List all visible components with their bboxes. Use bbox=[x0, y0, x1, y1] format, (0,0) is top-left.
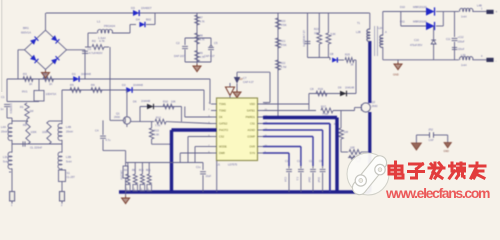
svg-text:RC1: RC1 bbox=[139, 170, 144, 172]
svg-text:20mH: 20mH bbox=[66, 130, 73, 134]
svg-text:R22: R22 bbox=[281, 61, 286, 65]
svg-text:C8: C8 bbox=[310, 87, 314, 91]
svg-text:22nF: 22nF bbox=[308, 177, 311, 183]
svg-text:CS1: CS1 bbox=[250, 122, 256, 126]
svg-text:CAP 4.07: CAP 4.07 bbox=[204, 55, 215, 58]
svg-text:R2: R2 bbox=[92, 39, 96, 43]
svg-text:R1: R1 bbox=[20, 105, 24, 109]
svg-text:C16: C16 bbox=[297, 160, 302, 163]
svg-text:R13: R13 bbox=[154, 129, 159, 133]
svg-text:4.7u: 4.7u bbox=[106, 139, 111, 142]
svg-text:1N4148: 1N4148 bbox=[345, 86, 355, 90]
svg-text:DAP 100T: DAP 100T bbox=[174, 55, 186, 58]
svg-text:100K: 100K bbox=[42, 131, 48, 134]
svg-text:100K: 100K bbox=[31, 130, 37, 134]
svg-text:MBR20100: MBR20100 bbox=[413, 5, 427, 9]
svg-text:S1: S1 bbox=[67, 171, 71, 175]
svg-text:OVR: OVR bbox=[249, 145, 255, 149]
svg-text:C1: C1 bbox=[1, 95, 5, 99]
svg-text:+C12: +C12 bbox=[458, 36, 465, 39]
svg-text:C4: C4 bbox=[95, 129, 99, 133]
svg-text:B02: B02 bbox=[146, 18, 152, 22]
svg-text:R5: R5 bbox=[70, 83, 74, 87]
svg-text:RA: RA bbox=[124, 169, 128, 172]
svg-text:RD1: RD1 bbox=[146, 170, 151, 172]
svg-text:D10: D10 bbox=[400, 5, 405, 9]
svg-text:U2 LNK362PN: U2 LNK362PN bbox=[302, 30, 305, 47]
svg-text:D1: D1 bbox=[72, 72, 76, 76]
svg-text:1K: 1K bbox=[49, 82, 53, 86]
svg-text:R19: R19 bbox=[318, 87, 323, 91]
svg-text:D4: D4 bbox=[136, 18, 140, 22]
svg-text:1N4448: 1N4448 bbox=[133, 83, 143, 87]
svg-text:1M: 1M bbox=[30, 109, 35, 113]
svg-text:1n: 1n bbox=[1, 107, 5, 111]
svg-text:R25: R25 bbox=[345, 53, 350, 57]
svg-text:R23: R23 bbox=[314, 28, 319, 31]
svg-text:+: + bbox=[496, 10, 498, 14]
svg-text:BR1: BR1 bbox=[23, 26, 29, 30]
svg-text:L2B: L2B bbox=[356, 30, 361, 34]
svg-text:-: - bbox=[496, 59, 497, 63]
svg-text:470K: 470K bbox=[281, 43, 287, 47]
svg-text:779K: 779K bbox=[322, 112, 328, 116]
svg-text:L4A: L4A bbox=[1, 125, 6, 129]
svg-text:10D471K: 10D471K bbox=[46, 92, 57, 96]
svg-text:220uF: 220uF bbox=[458, 48, 465, 51]
svg-text:Q2: Q2 bbox=[372, 100, 376, 104]
svg-text:R10: R10 bbox=[163, 99, 168, 103]
svg-text:(P)2: (P)2 bbox=[429, 129, 434, 132]
svg-text:5mH: 5mH bbox=[66, 160, 72, 164]
svg-text:CL 220nF: CL 220nF bbox=[30, 146, 42, 150]
svg-text:C10: C10 bbox=[414, 38, 419, 42]
svg-text:DMR: DMR bbox=[219, 151, 225, 155]
svg-text:AGND: AGND bbox=[248, 128, 256, 132]
svg-text:470uF/35V: 470uF/35V bbox=[410, 44, 423, 47]
svg-text:L1: L1 bbox=[97, 20, 101, 24]
svg-text:TSM1: TSM1 bbox=[219, 102, 226, 106]
svg-text:1.6K: 1.6K bbox=[154, 134, 159, 137]
svg-text:R20: R20 bbox=[281, 19, 286, 23]
svg-text:D6: D6 bbox=[133, 100, 137, 104]
svg-text:C2: C2 bbox=[176, 41, 180, 45]
svg-text:0.1: 0.1 bbox=[295, 177, 298, 181]
svg-text:1N4448: 1N4448 bbox=[81, 72, 91, 76]
svg-text:10uF: 10uF bbox=[317, 177, 320, 183]
svg-text:A: A bbox=[385, 30, 387, 34]
svg-text:RB: RB bbox=[132, 170, 136, 172]
svg-text:C5: C5 bbox=[214, 41, 218, 45]
svg-text:R12: R12 bbox=[156, 116, 161, 120]
svg-text:GND: GND bbox=[444, 150, 450, 153]
svg-text:4.7K: 4.7K bbox=[200, 39, 205, 42]
svg-text:R21: R21 bbox=[281, 39, 286, 43]
svg-text:L2A: L2A bbox=[378, 27, 383, 30]
svg-text:C14: C14 bbox=[284, 177, 287, 182]
svg-text:1K: 1K bbox=[29, 82, 33, 86]
svg-text:104/275V: 104/275V bbox=[120, 170, 122, 180]
svg-text:GND: GND bbox=[393, 73, 399, 77]
svg-text:1N4448: 1N4448 bbox=[141, 99, 151, 103]
svg-text:R3: R3 bbox=[23, 72, 27, 76]
svg-text:SYN: SYN bbox=[250, 151, 255, 155]
svg-text:R4: R4 bbox=[43, 72, 47, 76]
svg-text:R17: R17 bbox=[321, 105, 326, 109]
svg-text:5.6K: 5.6K bbox=[331, 33, 336, 36]
svg-text:C17: C17 bbox=[309, 160, 314, 163]
svg-text:600V1A: 600V1A bbox=[21, 31, 31, 35]
svg-text:COMP: COMP bbox=[247, 135, 255, 139]
svg-text:10K: 10K bbox=[171, 99, 176, 103]
svg-text:DK: DK bbox=[219, 115, 223, 119]
svg-text:LD7575: LD7575 bbox=[228, 163, 238, 167]
svg-text:D8: D8 bbox=[330, 52, 334, 56]
svg-text:R8: R8 bbox=[23, 123, 27, 127]
svg-text:CS2: CS2 bbox=[219, 135, 225, 139]
svg-text:MBR20100: MBR20100 bbox=[413, 20, 427, 24]
svg-text:D9: D9 bbox=[338, 86, 342, 90]
svg-text:MODE: MODE bbox=[219, 145, 227, 149]
svg-text:+4.7uF/400V: +4.7uF/400V bbox=[88, 51, 103, 55]
svg-text:1mH: 1mH bbox=[461, 63, 467, 67]
svg-text:R6: R6 bbox=[91, 83, 95, 87]
svg-text:PHOTO: PHOTO bbox=[219, 128, 228, 132]
svg-text:7.7K: 7.7K bbox=[155, 123, 161, 127]
svg-text:10R: 10R bbox=[350, 147, 355, 150]
svg-text:C7: C7 bbox=[243, 76, 247, 80]
svg-text:10K: 10K bbox=[314, 32, 319, 35]
svg-text:C3: C3 bbox=[88, 47, 92, 51]
svg-text:PWRD1: PWRD1 bbox=[246, 115, 256, 119]
svg-text:PROA04: PROA04 bbox=[104, 24, 115, 28]
svg-text:D3: D3 bbox=[131, 6, 135, 10]
svg-text:C11: C11 bbox=[446, 38, 451, 41]
svg-text:CAP: CAP bbox=[429, 139, 434, 142]
svg-text:L3A: L3A bbox=[3, 155, 8, 159]
svg-text:20mH: 20mH bbox=[1, 130, 8, 134]
svg-text:RV1: RV1 bbox=[22, 90, 28, 94]
svg-text:GATE2: GATE2 bbox=[219, 122, 228, 126]
svg-text:D11: D11 bbox=[400, 20, 405, 24]
svg-text:4.7K: 4.7K bbox=[200, 21, 205, 24]
svg-text:www.elecfans.com: www.elecfans.com bbox=[385, 185, 490, 201]
svg-text:CL-25T: CL-25T bbox=[67, 176, 76, 179]
svg-text:10uF: 10uF bbox=[206, 175, 212, 178]
svg-text:D2: D2 bbox=[122, 83, 126, 87]
svg-text:1N4007: 1N4007 bbox=[141, 6, 152, 10]
svg-text:5mH: 5mH bbox=[3, 160, 9, 164]
svg-text:L4B: L4B bbox=[66, 125, 71, 129]
svg-text:L3B: L3B bbox=[66, 155, 71, 159]
svg-text:CAP 4.07: CAP 4.07 bbox=[243, 81, 254, 84]
svg-text:L3A: L3A bbox=[461, 53, 466, 57]
svg-text:4.7M: 4.7M bbox=[281, 65, 287, 69]
svg-text:TSM2: TSM2 bbox=[219, 109, 226, 113]
svg-text:C15: C15 bbox=[285, 160, 290, 163]
svg-text:1mH: 1mH bbox=[461, 15, 467, 19]
svg-text:10R: 10R bbox=[344, 131, 349, 134]
svg-text:C1u: C1u bbox=[196, 166, 201, 169]
svg-text:2N60: 2N60 bbox=[372, 105, 379, 108]
svg-text:4.7K: 4.7K bbox=[99, 39, 105, 43]
svg-text:470K: 470K bbox=[281, 23, 287, 27]
svg-text:VDD: VDD bbox=[250, 102, 256, 106]
svg-text:GATE1: GATE1 bbox=[247, 109, 256, 113]
svg-text:2N60: 2N60 bbox=[114, 116, 121, 119]
svg-text:220uF: 220uF bbox=[458, 41, 466, 44]
svg-text:103/250V: 103/250V bbox=[9, 103, 12, 114]
svg-text:Q1: Q1 bbox=[116, 112, 120, 116]
